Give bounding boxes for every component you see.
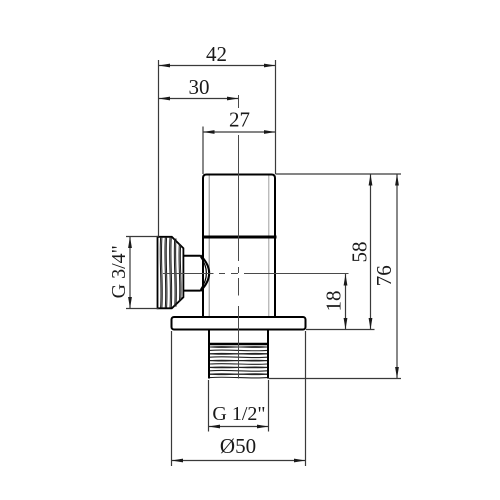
flange — [172, 317, 306, 330]
extension G3/4 top — [126, 236, 159, 238]
svg-text:Ø50: Ø50 — [220, 434, 256, 458]
extension line for 27 left — [202, 127, 204, 175]
extension G1/2 right — [268, 380, 270, 432]
bottom thread crest lines — [210, 347, 267, 378]
horizontal axis centerline — [163, 273, 349, 275]
side thread crest lines — [160, 238, 181, 308]
dimension G3/4 — [128, 237, 132, 309]
svg-text:G 3/4": G 3/4" — [108, 245, 130, 298]
dimension 27 — [203, 130, 276, 134]
bottom thread runout line — [209, 343, 269, 346]
svg-text:27: 27 — [229, 108, 250, 132]
extension line left x158 — [158, 60, 160, 237]
hex bulge outer arc — [201, 255, 210, 291]
dimension 42 — [159, 64, 276, 68]
side thread G3/4 block — [158, 237, 184, 308]
extension line right x275.5 — [275, 60, 277, 174]
svg-text:30: 30 — [189, 75, 210, 99]
valve body outline — [203, 175, 275, 318]
svg-text:42: 42 — [206, 42, 227, 66]
extension top right y174 — [276, 173, 402, 175]
extension flange bottom right y329.5 — [306, 329, 375, 331]
dimension 30 — [159, 97, 239, 101]
side neck — [183, 256, 200, 291]
svg-text:18: 18 — [322, 291, 346, 312]
dimension G1/2 — [209, 425, 269, 429]
svg-text:58: 58 — [348, 242, 372, 263]
dimension Ø50 — [172, 459, 306, 463]
dimension 76 — [395, 174, 399, 379]
svg-text:G 1/2": G 1/2" — [212, 403, 265, 425]
body inner bore line right — [268, 176, 270, 317]
extension Ø50 right — [305, 331, 307, 466]
dimension 18 — [344, 274, 348, 330]
body inner bore line left — [208, 176, 210, 317]
extension G1/2 left — [208, 380, 210, 432]
body thick separation line — [203, 236, 277, 239]
svg-text:76: 76 — [372, 265, 396, 286]
extension G3/4 bottom — [126, 308, 159, 310]
extension thread bottom right y378.5 — [269, 378, 402, 380]
hex bulge inner arc — [201, 257, 207, 290]
bottom thread G1/2 sides — [209, 330, 268, 379]
extension Ø50 left — [171, 331, 173, 466]
vertical centerline — [238, 95, 240, 379]
dimension 58 — [369, 174, 373, 330]
